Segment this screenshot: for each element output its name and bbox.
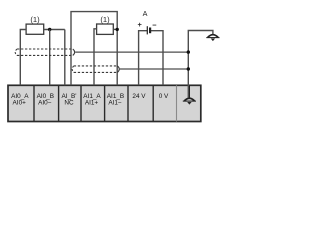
battery A wires <box>139 31 148 86</box>
svg-text:A: A <box>143 9 148 18</box>
sensor S1 box <box>26 24 44 34</box>
svg-text:NC: NC <box>64 100 74 107</box>
terminal wall 3-4 <box>80 85 82 121</box>
wire loop over sensor 2 (AI_B' up, across, down to AI1_B) <box>71 12 117 86</box>
shielded cable 1 <box>15 49 74 55</box>
wire S1 left stub <box>20 30 26 86</box>
svg-text:+: + <box>138 20 143 29</box>
junction J2 <box>116 28 119 31</box>
svg-text:24 V: 24 V <box>132 93 146 100</box>
svg-text:AI1+: AI1+ <box>85 100 99 107</box>
wire S1 right to node C <box>44 29 65 31</box>
terminal wall 5-6 <box>127 85 129 121</box>
shield 2 drain wire <box>120 68 189 70</box>
svg-text:0 V: 0 V <box>159 93 169 100</box>
battery short plate <box>149 28 151 34</box>
wire S2 left stub <box>94 29 97 86</box>
shielded cable 2 <box>72 66 119 73</box>
svg-text:AI1−: AI1− <box>108 100 122 107</box>
wire C down to AI_B' <box>64 30 66 86</box>
junction dot shield1-earth <box>187 50 190 53</box>
svg-text:AI0−: AI0− <box>38 100 52 107</box>
terminal block body <box>8 85 201 121</box>
svg-text:(1): (1) <box>100 15 110 24</box>
battery long plate <box>146 26 148 34</box>
terminal wall 4-5 <box>104 85 106 121</box>
junction dot shield2-earth <box>187 67 190 70</box>
earth wire riser <box>188 31 213 98</box>
junction J1 <box>48 28 51 31</box>
sensor S2 box <box>97 24 114 34</box>
terminal wall 7-8 <box>176 85 178 121</box>
svg-text:−: − <box>152 20 157 29</box>
svg-text:(1): (1) <box>30 15 40 24</box>
terminal wall 6-7 <box>152 85 154 121</box>
svg-text:AI0+: AI0+ <box>13 100 27 107</box>
wire B down to AI0_B <box>49 30 51 86</box>
functional earth symbol top right <box>206 35 219 41</box>
terminal wall 2-3 <box>58 85 60 121</box>
shield 1 drain wire <box>75 51 188 53</box>
ground symbol in terminal 8 <box>183 85 196 104</box>
terminal wall 1-2 <box>33 85 35 121</box>
wire S2 right stub <box>113 28 117 30</box>
